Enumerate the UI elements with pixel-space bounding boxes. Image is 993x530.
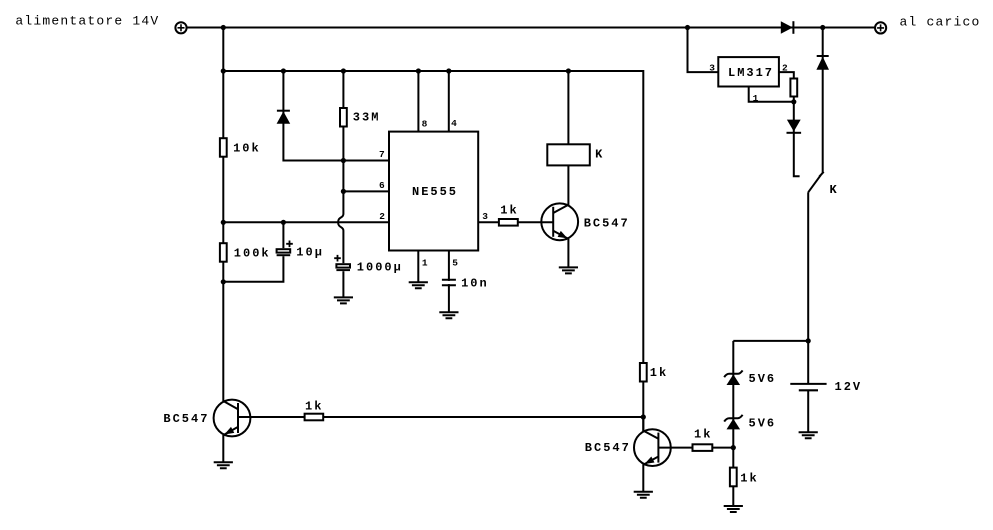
svg-text:LM317: LM317 bbox=[728, 66, 774, 80]
svg-text:8: 8 bbox=[422, 118, 428, 129]
svg-text:3: 3 bbox=[709, 62, 715, 73]
svg-text:33M: 33M bbox=[353, 111, 381, 125]
svg-text:1k: 1k bbox=[694, 428, 712, 442]
svg-text:5V6: 5V6 bbox=[749, 372, 777, 386]
svg-text:2: 2 bbox=[379, 211, 385, 222]
svg-text:3: 3 bbox=[482, 211, 488, 222]
svg-text:10k: 10k bbox=[233, 141, 261, 155]
svg-text:1: 1 bbox=[753, 93, 759, 104]
svg-text:10µ: 10µ bbox=[296, 245, 324, 259]
svg-text:BC547: BC547 bbox=[584, 216, 630, 230]
svg-text:BC547: BC547 bbox=[585, 441, 631, 455]
svg-text:NE555: NE555 bbox=[412, 185, 458, 199]
svg-text:1: 1 bbox=[422, 258, 428, 269]
svg-text:K: K bbox=[595, 147, 604, 161]
svg-text:1000µ: 1000µ bbox=[357, 260, 403, 274]
svg-text:1k: 1k bbox=[740, 471, 758, 485]
svg-text:100k: 100k bbox=[234, 246, 271, 260]
svg-text:6: 6 bbox=[379, 180, 385, 191]
svg-text:7: 7 bbox=[379, 149, 385, 160]
svg-text:5V6: 5V6 bbox=[749, 416, 777, 430]
svg-text:BC547: BC547 bbox=[163, 412, 209, 426]
svg-text:al carico: al carico bbox=[900, 14, 981, 29]
svg-text:K: K bbox=[830, 183, 839, 197]
svg-text:12V: 12V bbox=[835, 380, 863, 394]
svg-text:4: 4 bbox=[451, 118, 457, 129]
svg-text:1k: 1k bbox=[500, 204, 518, 218]
svg-text:alimentatore 14V: alimentatore 14V bbox=[15, 14, 159, 29]
svg-text:10n: 10n bbox=[461, 276, 489, 290]
svg-text:1k: 1k bbox=[650, 366, 668, 380]
svg-text:5: 5 bbox=[452, 257, 458, 268]
svg-text:1k: 1k bbox=[305, 399, 323, 413]
svg-text:2: 2 bbox=[782, 62, 788, 73]
